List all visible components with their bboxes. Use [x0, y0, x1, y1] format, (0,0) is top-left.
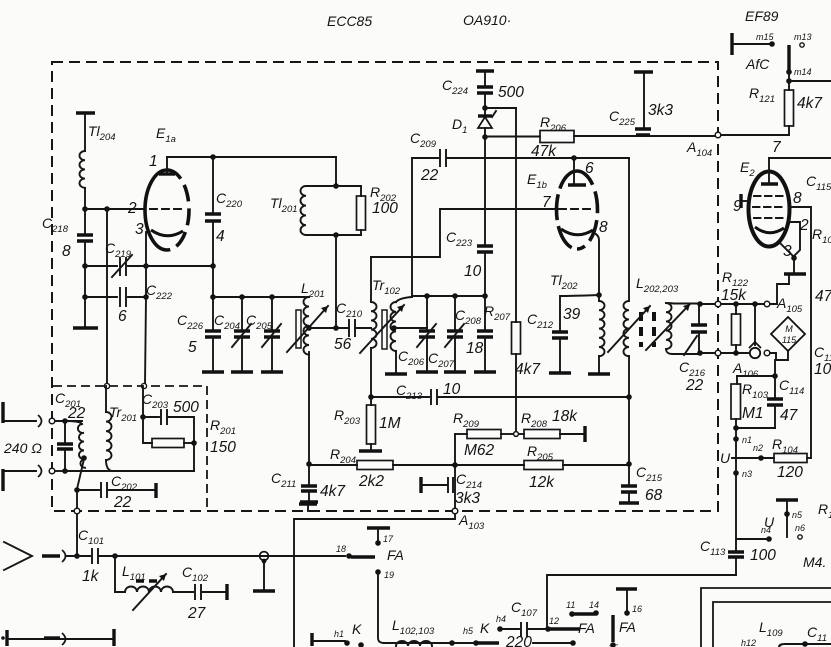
wire C222 junction down to inner box circle: [145, 297, 146, 384]
node A103 open circle: [452, 508, 458, 514]
svg-text:47: 47: [815, 288, 831, 305]
wire R122 top to lamp riser: [736, 303, 765, 305]
lamp (dial light): [749, 304, 761, 358]
capacitor C107: [505, 599, 547, 647]
resistor R104: [772, 436, 811, 481]
wire Tr201 bottom bus: [65, 470, 194, 472]
svg-text:10: 10: [443, 381, 461, 398]
svg-text:7: 7: [772, 139, 782, 156]
wire R209 left leg: [454, 434, 456, 465]
wire x107 down to inner box: [106, 209, 108, 384]
node junction C224/D1: [482, 105, 488, 111]
svg-text:14: 14: [589, 600, 599, 610]
ground bar below C218: [73, 326, 98, 329]
svg-text:1M: 1M: [379, 415, 401, 432]
wire L202 bottom to C215: [628, 397, 630, 464]
capacitor C205 (variable): [246, 294, 283, 372]
capacitor C102: [173, 564, 227, 622]
capacitor C202: [77, 473, 156, 511]
svg-text:68: 68: [645, 487, 663, 504]
resistor R201 (150): [143, 417, 236, 471]
svg-text:15k: 15k: [721, 287, 747, 304]
node junction D1/R206: [482, 134, 488, 140]
pin9 terminal bar: [739, 194, 742, 208]
node Tr201 coil tap: [81, 455, 87, 461]
svg-text:22: 22: [685, 377, 704, 394]
svg-text:47: 47: [780, 407, 799, 424]
svg-text:10: 10: [814, 361, 831, 378]
wire C220 leg down to coil bus: [212, 266, 214, 297]
node open circle on inner box top (C203 feed): [141, 383, 146, 388]
capacitor C201: [55, 390, 86, 474]
transformer Tr201 main coil: [106, 386, 112, 471]
svg-text:4: 4: [216, 228, 225, 245]
svg-text:500: 500: [173, 399, 199, 416]
svg-text:27: 27: [187, 605, 207, 622]
wire A106 to meter M115: [770, 352, 788, 360]
antenna terminal lower (240 ohm): [3, 465, 65, 491]
coil L201 (tuned, with core and arrow): [287, 280, 328, 355]
svg-text:120: 120: [777, 464, 803, 481]
svg-text:n1: n1: [742, 435, 752, 445]
capacitor C224: [442, 71, 524, 108]
node junction x107 on pin2 wire: [104, 206, 110, 212]
wire pin1 top bus: [167, 156, 336, 158]
resistor R122: [721, 269, 749, 356]
svg-text:2k2: 2k2: [358, 473, 384, 490]
capacitor C215: [619, 464, 663, 504]
wire pin3 vertical: [145, 232, 147, 297]
contacts h5 K: [449, 620, 499, 646]
connector circle with ground on antenna line: [253, 552, 275, 591]
contact 18 with FA: [336, 544, 404, 563]
svg-text:h4: h4: [496, 614, 506, 624]
svg-text:ECC85: ECC85: [327, 13, 372, 29]
node A106 open circle: [764, 350, 770, 356]
svg-text:FA: FA: [387, 547, 404, 563]
wire pin7 E2 to C115: [769, 157, 831, 159]
svg-text:n3: n3: [742, 469, 752, 479]
terminal bar on shield bottom: [299, 502, 317, 505]
svg-text:n5: n5: [792, 510, 803, 520]
capacitor C216 (trimmer): [679, 304, 707, 394]
svg-text:AfC: AfC: [745, 56, 770, 72]
node n1: [733, 436, 739, 442]
shield box inner (Tr201 compartment) dashed: [53, 386, 207, 510]
svg-text:M4.: M4.: [803, 554, 826, 570]
resistor R202: [306, 184, 398, 235]
svg-text:M1: M1: [742, 405, 764, 422]
capacitor C207 (trimmer): [428, 293, 466, 372]
svg-text:11: 11: [566, 600, 575, 610]
node junction lamp riser top: [752, 301, 758, 307]
svg-text:h12: h12: [741, 638, 756, 647]
node junction L202 bottom / C213 bus: [626, 394, 632, 400]
svg-text:n6: n6: [795, 523, 805, 533]
svg-text:22: 22: [113, 494, 132, 511]
capacitor C210: [334, 300, 371, 353]
svg-text:22: 22: [420, 167, 439, 184]
node A104 open circle: [715, 132, 721, 138]
node junction antenna line: [74, 553, 80, 559]
wire C113 to contact 12: [547, 575, 736, 628]
node open circle AVC on shield border: [715, 301, 721, 307]
node junction R204/R209: [452, 462, 458, 468]
wire pin8 E2 feedback line: [789, 207, 811, 458]
svg-text:16: 16: [632, 604, 642, 614]
wire C219 junction to C220 leg: [146, 265, 213, 267]
wire AVC line y304: [700, 303, 765, 305]
node junction secondary bottom / C216: [697, 350, 703, 356]
box bottom right outer: [701, 588, 831, 647]
capacitor C206 (trimmer): [398, 293, 438, 372]
svg-text:240 Ω: 240 Ω: [3, 440, 42, 456]
capacitor C223: [446, 137, 493, 296]
svg-text:19: 19: [384, 570, 394, 580]
svg-text:n2: n2: [753, 443, 763, 453]
shield box outer dashed: [52, 62, 718, 511]
wire R207 feed vertical: [515, 108, 517, 322]
svg-text:3k3: 3k3: [648, 102, 673, 119]
node n4 and U: [736, 514, 775, 542]
capacitor C226: [177, 297, 224, 372]
tube E1b: [527, 158, 608, 249]
svg-text:m14: m14: [794, 67, 812, 77]
node A105 open circle: [764, 301, 770, 307]
svg-text:18k: 18k: [552, 408, 578, 425]
node junction C215 top: [626, 461, 632, 467]
node junction L101 branch: [112, 553, 118, 559]
terminal n5: [776, 500, 803, 537]
svg-text:6: 6: [118, 308, 127, 325]
svg-text:18: 18: [466, 340, 484, 357]
meter M115 diamond: [771, 317, 805, 351]
resistor R121: [721, 72, 823, 135]
tube E2: [733, 139, 809, 260]
svg-text:U: U: [720, 450, 731, 466]
wire n3 down to C113: [735, 458, 737, 550]
transformer Tr201 antenna coil: [65, 404, 137, 468]
contact FA vertical bar 15: [608, 615, 636, 647]
svg-text:OA910·: OA910·: [463, 12, 511, 28]
svg-text:2: 2: [127, 200, 137, 217]
node junction Tl204/C218/pin2: [82, 206, 88, 212]
contact 19: [375, 569, 394, 643]
svg-text:47k: 47k: [531, 143, 557, 160]
node small circle R209/R208 junction: [514, 432, 519, 437]
svg-text:6: 6: [585, 160, 594, 177]
wire Tl201 bottom down to C210 node: [335, 235, 337, 328]
capacitor C219 (trimmer): [85, 240, 146, 277]
node junction C220 bottom: [210, 263, 216, 269]
svg-text:100: 100: [750, 547, 776, 564]
svg-text:4k7: 4k7: [515, 361, 541, 378]
node junction C219/pin3: [143, 263, 149, 269]
wire tap to C206 leg: [394, 327, 427, 329]
resistor R206: [485, 114, 716, 160]
capacitor C212: [527, 295, 599, 373]
capacitor C213: [396, 381, 461, 404]
svg-text:100: 100: [372, 200, 398, 217]
wire L201 bottom long vertical: [308, 352, 310, 464]
contact h4 with C107: [496, 614, 519, 632]
wire pin3 to cathode node: [780, 243, 794, 257]
wire A105 riser to cathode ground: [770, 276, 789, 304]
coil L102,103 (partial at edge): [396, 641, 432, 646]
svg-text:FA: FA: [619, 619, 636, 635]
ground bar cathode E2: [793, 258, 795, 273]
wire bottom switch bus: [384, 642, 450, 644]
wire pin2 of E1a: [85, 208, 145, 210]
wire A103 down-left to switch column: [294, 514, 455, 647]
capacitor C209: [410, 130, 574, 184]
transformer Tl201 with R202: [270, 157, 361, 235]
svg-text:5: 5: [188, 339, 197, 356]
node junction C211 / L201 return: [306, 461, 312, 467]
choke m14: [786, 45, 831, 84]
wire E1b grid bus y296: [412, 296, 485, 297]
resistor R204: [309, 446, 455, 490]
wire U line with n2: [732, 457, 774, 459]
svg-text:K: K: [480, 620, 490, 636]
capacitor C218: [42, 209, 93, 266]
svg-text:3: 3: [135, 221, 144, 238]
resistor R209: [453, 410, 513, 459]
wire tap down to C202 node: [77, 459, 84, 489]
wire pin8 down to Tl202: [594, 233, 599, 295]
wire C213 bus: [371, 396, 429, 398]
wire pin6 bus to L202 feed: [574, 157, 629, 159]
svg-text:4k7: 4k7: [320, 483, 346, 500]
capacitor C225: [609, 72, 673, 135]
node junction pin6: [571, 155, 577, 161]
node junction cathode: [791, 255, 797, 261]
node junction C222 right / pin3: [143, 294, 149, 300]
node Tr102 secondary tap: [391, 325, 397, 331]
node junction secondary top / C216: [697, 301, 703, 307]
wire 220 row: [533, 642, 572, 644]
svg-text:m13: m13: [794, 32, 812, 42]
contact 12 FA bar: [549, 616, 595, 636]
diode D1: [452, 108, 496, 137]
node n3: [733, 470, 739, 476]
wire pin7 E1b: [371, 209, 555, 257]
node junction Tl201 bottom: [333, 232, 339, 238]
transformer L202,203: [608, 158, 700, 397]
svg-text:8: 8: [793, 190, 802, 207]
resistor R103 with M1: [731, 376, 775, 428]
svg-text:12k: 12k: [529, 474, 555, 491]
svg-text:h1: h1: [334, 629, 344, 639]
svg-text:M: M: [785, 324, 793, 334]
resistor R205: [455, 443, 629, 491]
antenna terminal upper (240 ohm): [3, 402, 82, 427]
svg-text:1: 1: [149, 153, 158, 170]
node junction C220 top: [210, 154, 216, 160]
svg-text:10: 10: [464, 263, 482, 280]
capacitor C113: [700, 538, 776, 575]
capacitor C101: [67, 527, 115, 585]
svg-text:500: 500: [498, 84, 524, 101]
switch row bottom left: [312, 621, 364, 647]
capacitor C203: [140, 386, 199, 443]
svg-text:8: 8: [62, 243, 71, 260]
svg-text:U: U: [764, 514, 775, 530]
wire C224 node to R207 line: [485, 107, 516, 109]
wire C209 left leg: [412, 158, 438, 296]
capacitor C222: [85, 282, 173, 325]
svg-text:22: 22: [67, 405, 86, 422]
svg-text:18: 18: [336, 544, 346, 554]
node open circle on shield bottom: [74, 508, 80, 514]
wire C218 branch to ground: [84, 266, 86, 326]
box bottom right inner: [713, 602, 831, 647]
resistor R208: [519, 408, 585, 442]
wire pin2 to cathode node: [789, 222, 800, 256]
svg-text:7: 7: [542, 194, 552, 211]
svg-text:h5: h5: [463, 626, 474, 636]
capacitor C220: [205, 157, 243, 266]
wire lamp line y353: [700, 352, 748, 354]
capacitor C214: [421, 471, 482, 507]
capacitor C114: [736, 360, 804, 428]
antenna input 2 lower left: [1, 629, 114, 646]
svg-text:220: 220: [505, 634, 532, 647]
wire bottom right bus: [779, 644, 831, 647]
wire C202 node down through shield: [76, 490, 78, 554]
svg-text:12: 12: [549, 616, 559, 626]
tube E1a: [127, 125, 189, 250]
svg-text:1k: 1k: [82, 568, 100, 585]
terminal m13: [794, 32, 812, 47]
wire L201 tap to C210: [306, 325, 312, 331]
transformer Tr102: [360, 257, 412, 397]
node junction Tl201 bottom leg: [333, 325, 339, 331]
node junction contact 12: [545, 626, 551, 632]
node junction R203 top: [368, 394, 374, 400]
antenna input arrow: [4, 542, 66, 570]
capacitor C208: [455, 293, 496, 372]
svg-text:m15: m15: [756, 32, 775, 42]
resistor R203: [334, 397, 401, 451]
node junction C218/C219: [82, 263, 88, 269]
capacitor C204 (variable): [214, 294, 253, 372]
svg-text:M62: M62: [464, 442, 495, 459]
node open circle lamp line on shield border: [715, 350, 721, 356]
node junction C222 left: [82, 294, 88, 300]
terminal 16: [616, 589, 642, 616]
svg-text:K: K: [352, 621, 362, 637]
capacitor C211: [271, 464, 346, 502]
node junction C202: [74, 487, 80, 493]
svg-text:115: 115: [782, 335, 797, 345]
svg-text:FA: FA: [578, 620, 595, 636]
wire R204 node down to A103: [454, 465, 456, 509]
svg-text:39: 39: [563, 306, 581, 323]
svg-text:3k3: 3k3: [455, 490, 480, 507]
svg-text:56: 56: [334, 336, 352, 353]
resistor R207: [484, 303, 541, 432]
coil Tl204: [76, 113, 116, 209]
svg-text:17: 17: [383, 534, 394, 544]
wire coil bus to L201: [213, 296, 309, 298]
coil Tl202: [550, 272, 610, 374]
svg-text:8: 8: [599, 219, 608, 236]
node n6 open circle: [795, 523, 805, 539]
contacts 11 14: [566, 600, 599, 617]
node open circle on inner box top: [104, 383, 109, 388]
svg-text:150: 150: [210, 439, 236, 456]
node junction R103 bottom: [733, 425, 739, 431]
svg-text:4k7: 4k7: [797, 95, 823, 112]
svg-text:EF89: EF89: [745, 8, 779, 24]
terminal m15: [732, 32, 775, 55]
coil L101 (variable): [115, 556, 173, 610]
terminal FA 17: [367, 528, 394, 546]
wire antenna line to contact 18: [115, 555, 345, 557]
node junction Tl202 top: [596, 292, 602, 298]
node junction coil bus left: [210, 294, 216, 300]
